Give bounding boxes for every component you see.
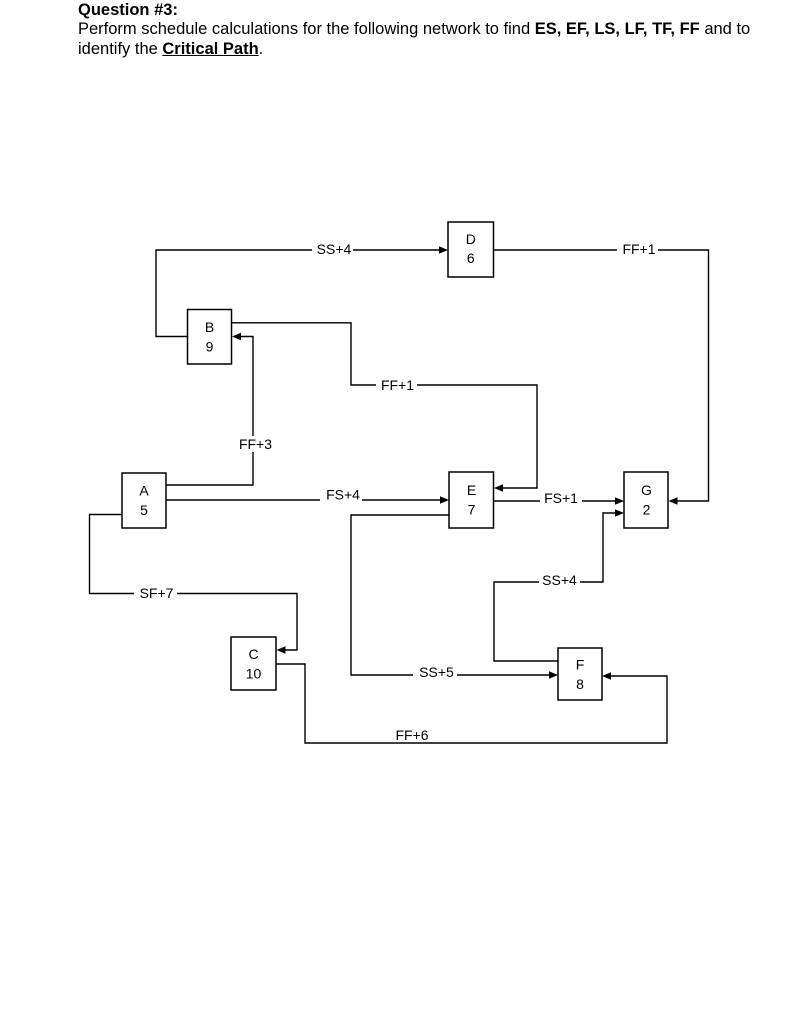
arrowhead SS+5 into F left bbox=[549, 671, 558, 679]
node C bbox=[231, 637, 276, 690]
svg-text:6: 6 bbox=[467, 250, 475, 266]
arrowhead into E right bbox=[494, 484, 503, 492]
wire SS+4 B to D bbox=[156, 250, 444, 337]
svg-text:SF+7: SF+7 bbox=[140, 585, 174, 601]
wire FF+3 A to B bbox=[166, 337, 253, 486]
svg-text:FS+1: FS+1 bbox=[544, 490, 578, 506]
wire SS+5 E to F bbox=[351, 515, 554, 675]
label SS+4 on B-D wire bbox=[312, 241, 353, 257]
wire FS+4 A to E bbox=[166, 499, 445, 501]
label SS+4 on F-G wire bbox=[539, 572, 580, 588]
svg-text:B: B bbox=[205, 319, 214, 335]
node F bbox=[558, 648, 602, 700]
svg-text:FS+4: FS+4 bbox=[326, 487, 360, 503]
node E bbox=[449, 472, 494, 528]
svg-text:FF+1: FF+1 bbox=[381, 377, 414, 393]
heading text bbox=[78, 1, 750, 59]
svg-text:5: 5 bbox=[140, 502, 148, 518]
arrowhead SS+4 into G left bbox=[615, 509, 624, 517]
arrowhead into D bbox=[439, 246, 448, 254]
svg-text:7: 7 bbox=[468, 502, 476, 518]
arrowhead into C right bbox=[277, 646, 286, 654]
svg-text:9: 9 bbox=[206, 339, 214, 355]
svg-text:F: F bbox=[576, 657, 585, 673]
wire SS+4 F to G bbox=[494, 513, 620, 661]
arrowhead into B right bbox=[232, 333, 241, 341]
node B bbox=[188, 310, 232, 365]
wire SF+7 A to C bbox=[90, 515, 298, 651]
arrowhead into G right bbox=[669, 497, 678, 505]
wire FF+6 C to F bbox=[276, 664, 667, 743]
svg-text:2: 2 bbox=[643, 502, 651, 518]
svg-text:D: D bbox=[466, 231, 476, 247]
svg-text:FF+3: FF+3 bbox=[239, 436, 272, 452]
node D bbox=[448, 222, 494, 277]
label FF+3 on A-B wire bbox=[238, 436, 274, 452]
svg-text:FF+6: FF+6 bbox=[395, 727, 428, 743]
svg-text:8: 8 bbox=[576, 676, 584, 692]
svg-text:E: E bbox=[467, 482, 476, 498]
arrowhead into E left bbox=[440, 496, 449, 504]
svg-text:A: A bbox=[139, 483, 149, 499]
wire FF+1 D to G bbox=[494, 250, 709, 501]
label FF+6 on C-F wire bbox=[395, 727, 428, 743]
svg-text:10: 10 bbox=[246, 666, 262, 682]
svg-text:SS+4: SS+4 bbox=[542, 572, 577, 588]
label SF+7 on A-C wire bbox=[134, 585, 177, 601]
label FS+1 on E-G wire bbox=[540, 490, 582, 506]
label FF+1 on D-G wire bbox=[617, 241, 658, 257]
svg-text:SS+5: SS+5 bbox=[419, 664, 454, 680]
label FS+4 on A-E wire bbox=[320, 487, 362, 503]
svg-text:FF+1: FF+1 bbox=[622, 241, 655, 257]
label SS+5 on E-F wire bbox=[413, 664, 457, 680]
svg-text:G: G bbox=[641, 482, 652, 498]
node A bbox=[122, 473, 166, 528]
svg-text:C: C bbox=[248, 646, 258, 662]
arrowhead FF+6 into F right bbox=[602, 672, 611, 680]
node G bbox=[624, 472, 668, 528]
arrowhead FS+1 into G left bbox=[615, 497, 624, 505]
wire FS+1 E to G bbox=[494, 500, 621, 502]
wire FF+1 B to E bbox=[232, 323, 538, 488]
svg-text:SS+4: SS+4 bbox=[317, 241, 352, 257]
label FF+1 on B-E wire bbox=[376, 377, 417, 393]
